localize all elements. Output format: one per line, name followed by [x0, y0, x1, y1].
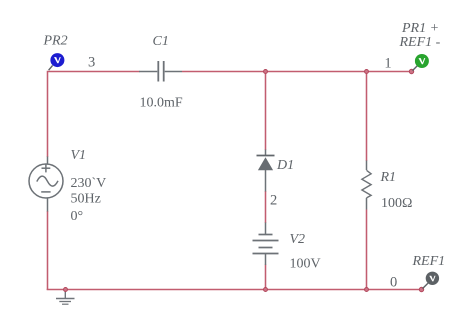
ac source V1 — [29, 157, 63, 212]
svg-text:R1: R1 — [380, 170, 397, 185]
svg-text:3: 3 — [88, 55, 95, 71]
svg-text:PR2: PR2 — [43, 34, 68, 49]
wire top left segment (node 3) — [48, 72, 140, 158]
probe PR2 — [49, 53, 65, 70]
junction bottom at ground — [64, 288, 68, 292]
wire below V2 — [265, 265, 267, 290]
wire diode branch upper — [265, 72, 267, 151]
svg-text:1: 1 — [384, 56, 391, 72]
probe PR1 — [413, 54, 429, 71]
battery V2 — [253, 223, 279, 266]
svg-text:100Ω: 100Ω — [381, 196, 412, 211]
terminal dot node 1 — [409, 69, 413, 73]
terminal dot node 0 — [419, 287, 423, 291]
svg-text:0°: 0° — [71, 209, 84, 224]
svg-text:PR1 +: PR1 + — [401, 21, 439, 36]
svg-text:REF1 -: REF1 - — [399, 35, 441, 50]
junction bottom at R1 branch — [365, 288, 369, 292]
wire below R1 — [366, 210, 368, 290]
ground — [56, 290, 75, 304]
svg-text:REF1: REF1 — [412, 254, 446, 269]
svg-text:230`V: 230`V — [71, 176, 107, 191]
svg-text:10.0mF: 10.0mF — [140, 96, 183, 111]
svg-text:C1: C1 — [153, 34, 169, 49]
wire left below V1 — [47, 211, 49, 290]
svg-text:2: 2 — [270, 193, 277, 209]
resistor R1 — [362, 161, 371, 210]
svg-text:100V: 100V — [290, 257, 321, 272]
wire top right of C1 to terminal node 1 — [182, 71, 412, 73]
capacitor C1 — [139, 61, 182, 82]
svg-text:50Hz: 50Hz — [71, 192, 101, 207]
svg-text:V1: V1 — [71, 148, 87, 163]
junction top at R1 branch — [365, 70, 369, 74]
wire R1 branch upper — [366, 72, 368, 162]
svg-text:D1: D1 — [276, 158, 294, 173]
svg-text:V2: V2 — [290, 232, 306, 247]
svg-text:0: 0 — [390, 275, 397, 291]
junction top at D1 branch — [264, 70, 268, 74]
diode D1 — [257, 150, 275, 192]
wire node 2 between D1 and V2 — [265, 191, 267, 223]
junction bottom at V2 branch — [264, 288, 268, 292]
probe REF1 — [423, 272, 440, 289]
wire bottom (node 0) — [47, 289, 422, 291]
